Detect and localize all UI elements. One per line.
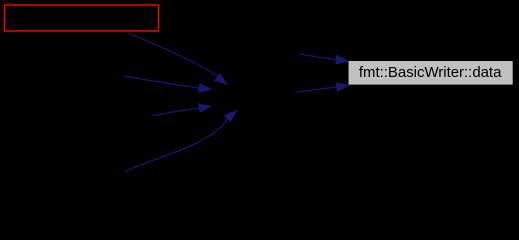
- arrowhead of edge 5: [335, 55, 348, 64]
- arrowhead of edge 1: [214, 73, 227, 84]
- wire: edge 3 (left lower to center node): [152, 108, 202, 116]
- wire: edge 6 (center node to data box, arrives bottom-left corner): [296, 87, 341, 93]
- wire: edge from red box to center node (curved): [128, 33, 218, 76]
- node: fmt::BasicWriter::data (grey box): [349, 61, 513, 85]
- wire: edge 5 (center upper node to data box, arrives top-left corner): [300, 54, 339, 60]
- svg-text:fmt::BasicWriter::data: fmt::BasicWriter::data: [359, 64, 502, 81]
- wire: edge 4 (bottom left, curved up to center node): [125, 119, 227, 173]
- arrowhead of edge 6: [336, 83, 349, 92]
- arrowhead of edge 4: [224, 111, 237, 123]
- wire: edge 2 (straight, left mid to center node): [124, 76, 201, 88]
- arrowhead of edge 2: [199, 83, 212, 92]
- node: current function (red box, label transparent): [5, 5, 159, 31]
- arrowhead of edge 3: [199, 104, 212, 113]
